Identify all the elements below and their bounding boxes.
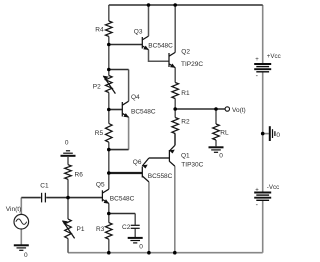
svg-text:P2: P2 [93, 83, 101, 90]
svg-text:0: 0 [219, 152, 223, 159]
svg-text:BC548C: BC548C [131, 108, 156, 115]
svg-text:Q1: Q1 [181, 152, 190, 159]
svg-text:+Vcc: +Vcc [267, 53, 281, 60]
svg-text:TIP29C: TIP29C [181, 61, 203, 68]
svg-text:C1: C1 [40, 183, 49, 190]
svg-text:0: 0 [139, 243, 143, 250]
svg-text:R1: R1 [181, 90, 190, 97]
svg-text:+: + [255, 57, 259, 63]
svg-text:0: 0 [65, 140, 69, 147]
svg-text:Q6: Q6 [133, 159, 142, 166]
svg-text:Q2: Q2 [181, 49, 190, 56]
svg-text:R5: R5 [95, 130, 104, 137]
svg-text:BC548C: BC548C [110, 195, 135, 202]
svg-text:Q3: Q3 [134, 28, 143, 35]
svg-text:Vin(t): Vin(t) [6, 206, 21, 213]
svg-text:-Vcc: -Vcc [267, 184, 279, 191]
svg-text:BC558C: BC558C [148, 173, 173, 180]
svg-text:R3: R3 [96, 226, 105, 233]
svg-text:0: 0 [276, 132, 280, 139]
svg-text:Vo(t): Vo(t) [232, 107, 246, 114]
svg-text:Q5: Q5 [96, 182, 105, 189]
svg-text:Q4: Q4 [131, 94, 140, 101]
svg-text:C2: C2 [122, 224, 131, 231]
svg-text:R4: R4 [95, 26, 104, 33]
svg-text:R6: R6 [75, 171, 84, 178]
svg-text:TIP30C: TIP30C [181, 162, 203, 169]
svg-text:+: + [255, 187, 259, 193]
svg-text:RL: RL [220, 129, 229, 136]
svg-text:0: 0 [24, 252, 28, 259]
svg-text:R2: R2 [181, 119, 190, 126]
svg-text:P1: P1 [77, 226, 85, 233]
svg-text:BC548C: BC548C [148, 43, 173, 50]
